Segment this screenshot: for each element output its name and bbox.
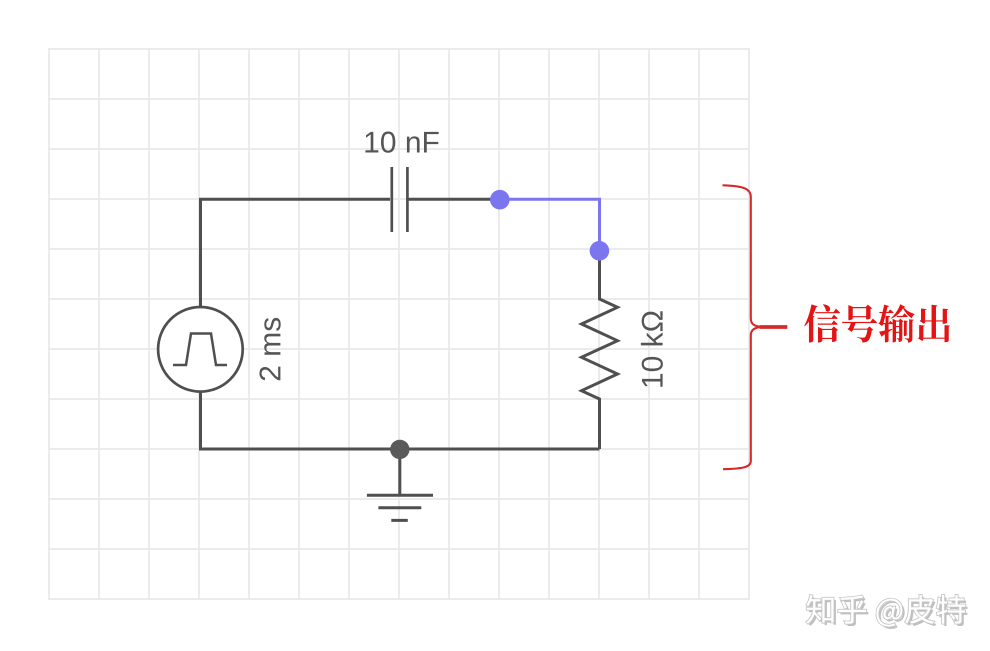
- resistor R1 zigzag with leads: [582, 251, 618, 450]
- ground bar 3: [391, 519, 408, 522]
- node A blue junction dot: [490, 190, 510, 210]
- wire: bottom rail: [199, 448, 600, 451]
- voltage source V1 circle: [158, 307, 243, 392]
- ground bar 2: [378, 506, 421, 509]
- voltage source V1 value 2 ms: [259, 318, 280, 380]
- watermark zhihu shadow: [809, 597, 968, 629]
- capacitor C1 left plate: [390, 167, 393, 232]
- ground bar 1: [367, 494, 433, 497]
- wire: node A to node B (blue output net): [500, 199, 600, 250]
- node B blue junction dot: [590, 241, 610, 261]
- capacitor C1 value 10 nF: [365, 132, 438, 153]
- resistor R1 value 10 kOhm: [641, 311, 663, 387]
- annotation text: signal output (red): [804, 304, 950, 342]
- annotation red curly brace: [723, 185, 763, 469]
- node C ground junction dot: [390, 440, 409, 459]
- watermark zhihu white face: [806, 595, 965, 627]
- wire: source bottom to bottom rail: [199, 392, 202, 449]
- watermark zhihu outline: [806, 595, 965, 627]
- wire: capacitor to node A: [408, 198, 500, 201]
- annotation red dash: [760, 325, 788, 329]
- ground stub wire: [398, 449, 401, 495]
- capacitor C1 right plate: [406, 167, 409, 232]
- wire: source top to capacitor: [201, 199, 391, 307]
- voltage source V1 pulse waveform symbol: [173, 334, 227, 366]
